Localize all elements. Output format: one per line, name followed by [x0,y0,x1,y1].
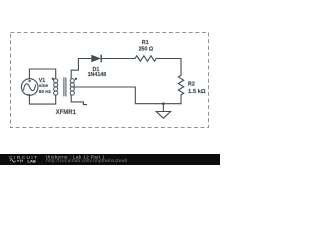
svg-text:http://circuitlab.com/cmphwdxu: http://circuitlab.com/cmphwdxu2ewb [46,158,128,163]
svg-text:250 Ω: 250 Ω [139,47,154,53]
labels [39,40,206,116]
svg-text:XFMR1: XFMR1 [56,110,77,116]
transformer XFMR1 primary winding [54,79,58,96]
wire V1 top to XFMR primary top [29,69,55,79]
wire secondary bottom stub [71,95,86,104]
footer bar [0,154,220,165]
transformer XFMR1 secondary winding [70,79,74,96]
svg-text:1.5 kΩ: 1.5 kΩ [188,89,206,95]
resistor R2 [178,75,183,95]
phase dot primary [52,78,54,80]
svg-text:R1: R1 [142,40,149,46]
wire center tap to bottom rail [74,87,181,104]
dashed selection border [11,33,209,128]
svg-text:sine: sine [39,83,49,88]
wire R1 to R2 top [156,59,181,76]
transformer core [64,77,66,96]
phase dot secondary [75,78,77,80]
svg-text:R2: R2 [188,81,195,87]
wire R2 bottom lead [180,95,182,104]
footer logo squiggle [10,159,23,162]
diode D1 [91,55,101,63]
wire diode cathode to R1 [101,58,135,60]
ground junction dot [162,102,165,105]
footer logo CIRCUIT [9,155,38,164]
svg-text:60 Hz: 60 Hz [39,89,52,94]
voltage source V1 [21,79,38,96]
ground symbol [156,104,170,119]
wire secondary top to diode anode [71,59,91,79]
wire V1 bottom to XFMR primary bottom [29,95,55,104]
resistor R1 [135,56,156,61]
svg-text:LAB: LAB [28,159,36,164]
svg-text:1N4148: 1N4148 [88,72,107,78]
